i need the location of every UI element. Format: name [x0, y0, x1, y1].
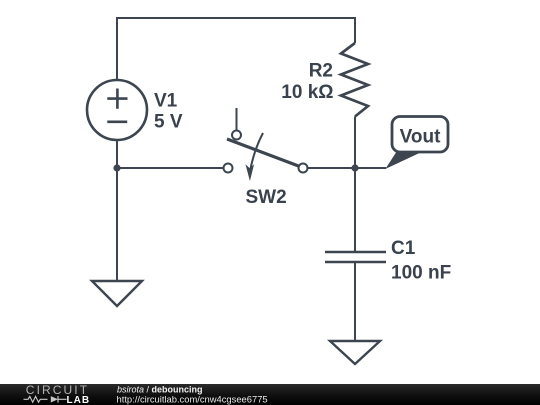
Vout flag: [385, 117, 448, 170]
svg-text:10 kΩ: 10 kΩ: [281, 82, 333, 103]
wire capacitor to ground: [354, 262, 356, 341]
voltage source V1: [87, 80, 147, 140]
wire top rail from V1 to R2: [117, 18, 355, 80]
svg-text:C1: C1: [391, 238, 416, 259]
CircuitLab logo: [24, 383, 91, 405]
svg-text:http://circuitlab.com/cnw4cgse: http://circuitlab.com/cnw4cgsee6775: [117, 393, 268, 404]
label C1 100 nF: [391, 238, 451, 284]
ground symbol right: [330, 341, 380, 364]
capacitor C1: [325, 252, 386, 262]
label R2 10 kOhm: [281, 61, 333, 104]
svg-text:V1: V1: [154, 91, 178, 112]
wire junction to switch left terminal: [117, 167, 224, 169]
node junction left: [113, 164, 120, 171]
label SW2: [246, 187, 287, 208]
wire node to Vout flag: [355, 167, 386, 169]
svg-text:5 V: 5 V: [154, 112, 183, 133]
label V1 5 V: [154, 91, 183, 133]
svg-text:Vout: Vout: [400, 127, 441, 148]
footer bar: [0, 384, 540, 405]
wire R2 bottom to capacitor: [354, 117, 356, 253]
svg-text:100 nF: 100 nF: [391, 263, 451, 284]
ground symbol left: [92, 281, 142, 306]
svg-text:R2: R2: [309, 61, 333, 82]
wire V1 bottom to ground rail: [116, 140, 118, 281]
wire switch right terminal to node: [308, 167, 356, 169]
svg-text:SW2: SW2: [246, 187, 287, 208]
resistor R2: [341, 43, 368, 117]
switch SW2: [224, 108, 308, 181]
svg-text:LAB: LAB: [67, 395, 91, 405]
node junction right: [351, 164, 358, 171]
footer credit text: [117, 385, 268, 405]
